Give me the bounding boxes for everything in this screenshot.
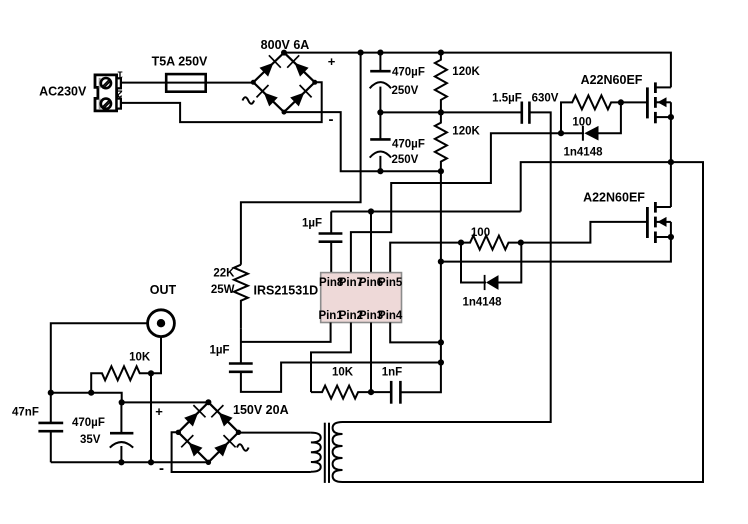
svg-text:470µF: 470µF — [392, 139, 425, 151]
wire BR1 minus to negative rail — [284, 112, 441, 171]
svg-text:OUT: OUT — [150, 283, 177, 297]
junction OUT / R7 — [148, 370, 154, 376]
wire Q2 source to negative column — [441, 237, 671, 262]
node BR2 ac right vertex — [236, 430, 241, 435]
junction bottom rail / OUT return — [148, 459, 154, 465]
capacitor C7 47nF — [38, 393, 63, 463]
junction top rail / 22K feed — [358, 50, 364, 56]
junction R4 D2 / Q2 gate — [518, 240, 524, 246]
junction plus rail / C7 — [48, 390, 54, 396]
svg-text:35V: 35V — [80, 434, 101, 446]
capacitor C1 470uF 250V — [370, 53, 391, 113]
wire mid rail between caps — [380, 111, 521, 113]
capacitor C8 470uF 35V — [110, 402, 134, 462]
wire VS node to half-bridge midpoint — [343, 162, 704, 482]
junction neg column / Q2 source return — [438, 259, 444, 265]
junction plus rail / R7 — [88, 390, 94, 396]
wire phase: terminal pin1 to bridge via fuse — [121, 82, 253, 84]
resistor R7 10K (feedback) — [91, 366, 151, 392]
junction top rail / C1 — [377, 50, 383, 56]
capacitor C3 1.5uF 630V — [522, 102, 530, 124]
svg-text:+: + — [328, 54, 336, 69]
svg-text:630V: 630V — [532, 93, 559, 105]
svg-text:Pin4: Pin4 — [378, 310, 403, 322]
wire R4 to Q2 gate — [521, 222, 646, 243]
svg-text:1.5µF: 1.5µF — [492, 93, 522, 105]
svg-text:-: - — [159, 460, 164, 477]
svg-text:250V: 250V — [392, 154, 419, 166]
bridge rectifier BR1 800V 6A — [253, 53, 314, 113]
wire C5 bottom to COM column — [241, 363, 441, 392]
junction gate1 drive node — [558, 130, 564, 136]
capacitor C2 470uF 250V — [370, 112, 391, 171]
junction R3 D1 / Q1 gate — [618, 99, 624, 105]
svg-text:1n4148: 1n4148 — [462, 297, 502, 309]
node BR1 ac left vertex — [251, 80, 256, 85]
wire pin2 jog to 10K — [311, 323, 351, 393]
svg-text:470µF: 470µF — [72, 417, 105, 429]
junction VS line / pin6 — [368, 208, 374, 214]
junction gate2 drive node — [458, 240, 464, 246]
svg-text:1µF: 1µF — [209, 344, 229, 356]
resistor R5 22K 25W — [234, 265, 248, 329]
wire positive top rail — [284, 53, 671, 88]
connector OUT — [148, 310, 175, 337]
wire 22K bottom to C5 — [240, 328, 242, 363]
AC sine symbol (BR1) — [243, 97, 255, 104]
svg-text:+: + — [155, 404, 163, 419]
svg-text:470µF: 470µF — [392, 67, 425, 79]
junction neg rail / C2 — [377, 168, 383, 174]
svg-text:100: 100 — [471, 227, 490, 239]
svg-text:150V 20A: 150V 20A — [233, 403, 289, 417]
svg-text:T5A 250V: T5A 250V — [152, 54, 208, 68]
svg-text:1n4148: 1n4148 — [563, 147, 603, 159]
wire HO gate net: pin7 to gate resistor node — [351, 133, 561, 272]
bridge rectifier BR2 150V 20A — [178, 402, 238, 462]
junction top rail / R1 — [438, 50, 444, 56]
wire VS horizontal (pin6 net) — [331, 211, 521, 213]
resistor R3 100 (upper gate) — [561, 95, 621, 133]
wire C3 right to primary top (via right column) — [343, 112, 551, 422]
svg-text:10K: 10K — [129, 352, 151, 364]
wire pin4 to COM — [390, 323, 441, 343]
svg-text:1µF: 1µF — [302, 218, 322, 230]
node BR1 plus vertex — [281, 50, 287, 56]
wire neutral: terminal pin2 to bridge right vertex — [121, 82, 322, 122]
wire gate1 to MOSFET — [621, 101, 646, 103]
wire LO gate net: pin5 to lower resistor node — [390, 243, 461, 273]
wire pin3 down — [370, 323, 372, 393]
node BR2 minus vertex — [206, 460, 211, 465]
svg-text:250V: 250V — [392, 85, 419, 97]
transformer T1 primary winding — [333, 422, 343, 482]
capacitor C6 1nF — [371, 381, 400, 404]
svg-text:1nF: 1nF — [382, 366, 402, 378]
node BR1 minus vertex — [282, 110, 287, 115]
node BR2 plus vertex — [205, 399, 211, 405]
junction half-bridge midpoint — [668, 159, 674, 165]
svg-text:A22N60EF: A22N60EF — [583, 191, 645, 205]
svg-text:120K: 120K — [452, 66, 480, 78]
diode D1 1n4148 (upper) — [561, 102, 621, 140]
junction neg rail / R2 — [438, 168, 444, 174]
wire negative column down to C6 — [400, 171, 441, 392]
svg-text:22K: 22K — [213, 267, 235, 279]
junction neg column / C5 — [438, 359, 444, 365]
resistor R2 120K — [435, 112, 447, 171]
wire BR2 left vertex to secondary bottom — [172, 432, 311, 472]
AC sine symbol (BR2) — [237, 444, 249, 451]
wire 22K supply from top rail — [241, 53, 361, 265]
transistor Q2 A22N60EF — [647, 202, 671, 243]
junction bottom rail / C8 — [118, 459, 124, 465]
svg-text:Pin5: Pin5 — [378, 277, 403, 289]
junction pin3 / R6 / C6 — [368, 389, 374, 395]
junction plus rail / C8 — [119, 399, 125, 405]
junction neg column / pin4 — [438, 339, 444, 345]
node BR2 ac left vertex — [176, 430, 181, 435]
fuse F1 — [166, 74, 206, 92]
node BR1 ac right vertex — [312, 80, 317, 85]
capacitor C5 1uF (VCC) — [229, 364, 253, 372]
wire OUT left to 47nF column — [51, 323, 148, 393]
wire pin6 drop — [370, 212, 372, 273]
transformer T1 secondary winding — [311, 433, 321, 472]
resistor R1 120K — [435, 53, 447, 113]
junction Q1 source — [668, 114, 674, 120]
svg-text:2: 2 — [117, 88, 123, 99]
transistor Q1 A22N60EF — [647, 82, 671, 207]
wire pin1 to VCC node — [241, 323, 331, 342]
junction mid rail / R1 R2 C3 — [438, 109, 444, 115]
svg-text:1: 1 — [117, 69, 123, 80]
transformer T1 core — [325, 423, 329, 483]
wire bottom rail low side — [51, 461, 209, 463]
svg-text:120K: 120K — [452, 126, 480, 138]
capacitor C4 1uF (bootstrap) — [319, 212, 343, 273]
resistor R4 100 (lower gate) — [461, 236, 521, 250]
wire BR2 right vertex to secondary top — [239, 432, 311, 434]
junction mid rail / C1 C2 — [377, 109, 383, 115]
diode D2 1n4148 (lower) — [461, 243, 521, 291]
resistor R6 10K — [311, 386, 371, 399]
svg-text:IRS21531D: IRS21531D — [254, 284, 319, 298]
svg-text:10K: 10K — [332, 366, 354, 378]
junction Q2 source — [668, 234, 674, 240]
svg-text:-: - — [329, 111, 334, 128]
svg-text:A22N60EF: A22N60EF — [581, 73, 643, 87]
svg-text:AC230V: AC230V — [39, 85, 87, 99]
svg-text:47nF: 47nF — [12, 406, 39, 418]
wire plus rail low side — [51, 393, 209, 403]
svg-text:25W: 25W — [211, 284, 235, 296]
wire OUT bottom to feedback node — [151, 336, 161, 462]
terminal block CN1 AC230V — [95, 75, 121, 111]
IC U1 IRS21531D body — [321, 273, 402, 323]
